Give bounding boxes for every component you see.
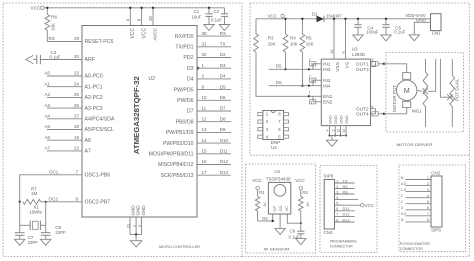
svg-text:OC2: OC2 [49, 196, 59, 201]
svg-text:PW/PD5: PW/PD5 [174, 87, 194, 93]
svg-text:2: 2 [401, 200, 403, 204]
U3 pins 7/15 IN2 IN4 [309, 75, 322, 86]
svg-text:D9: D9 [220, 127, 226, 132]
wire CN1 GND [414, 18, 430, 35]
svg-text:5: 5 [138, 225, 142, 227]
svg-text:A3: A3 [45, 103, 51, 108]
wire net D5 to IN1/IN3 [269, 68, 309, 70]
svg-text:TX/PD1: TX/PD1 [175, 45, 193, 51]
svg-text:12: 12 [202, 116, 208, 121]
svg-text:PB0/D8: PB0/D8 [176, 119, 194, 125]
svg-text:TX: TX [343, 179, 348, 183]
svg-text:3: 3 [427, 188, 429, 192]
svg-text:MICRO-CONTROLLER: MICRO-CONTROLLER [159, 244, 200, 249]
svg-text:12: 12 [337, 129, 341, 133]
svg-text:1: 1 [427, 176, 429, 180]
svg-text:IR SENSOR: IR SENSOR [264, 246, 290, 251]
svg-text:GND: GND [416, 18, 427, 23]
wire CN2 pin 4 net 1 [401, 194, 431, 198]
svg-text:16: 16 [330, 50, 334, 54]
svg-text:3: 3 [132, 225, 136, 227]
svg-text:VCC: VCC [141, 28, 147, 39]
U2 VCC pin 4 wire [125, 7, 136, 39]
svg-text:4-0: 4-0 [401, 182, 407, 186]
wire net D5 pin 9 [174, 84, 231, 93]
ground (C1) [204, 25, 214, 31]
wire net A3 pin 26 [47, 107, 82, 109]
wire pot1 wiper [428, 59, 435, 92]
ground (C2) [219, 25, 229, 31]
svg-text:PROGRAMMING: PROGRAMMING [330, 240, 357, 244]
svg-text:13: 13 [342, 129, 346, 133]
svg-text:17: 17 [202, 170, 208, 175]
wire EN pull line [256, 52, 309, 96]
svg-text:M: M [404, 86, 410, 95]
svg-text:U1: U1 [275, 169, 281, 174]
svg-text:EN2: EN2 [323, 100, 333, 106]
svg-text:9: 9 [310, 100, 312, 104]
svg-text:A7: A7 [85, 149, 91, 155]
svg-text:28: 28 [74, 124, 80, 129]
svg-text:D7: D7 [187, 109, 194, 115]
wire net D6 pin 10 [177, 95, 231, 104]
svg-text:R5: R5 [306, 36, 312, 41]
capacitor C1 10uF [192, 7, 213, 25]
svg-text:OUT4: OUT4 [356, 112, 369, 118]
section label PROGRAMMING CONNECTOR [330, 240, 357, 249]
junction dot pin 1 (D3 row) [196, 67, 199, 70]
wire U1 GND pin [279, 214, 281, 228]
svg-text:U3: U3 [352, 47, 358, 52]
svg-text:7: 7 [336, 213, 338, 217]
svg-text:A1-PC1: A1-PC1 [85, 84, 103, 90]
svg-text:A7: A7 [45, 146, 51, 151]
resistor R5 10K [300, 18, 314, 87]
svg-text:C1: C1 [194, 9, 200, 14]
svg-text:3: 3 [401, 206, 403, 210]
U2 AVCC pin 18 wire [148, 7, 159, 41]
ground (CN1) [409, 35, 419, 41]
svg-text:D12: D12 [343, 213, 350, 217]
ground (U2) [130, 241, 141, 247]
section box: IR SENSOR [246, 164, 316, 253]
svg-text:D7: D7 [220, 106, 226, 111]
svg-text:1K: 1K [305, 202, 310, 207]
svg-text:D6: D6 [220, 95, 226, 100]
U3 pins 6/14 OUT2 OUT4 [371, 105, 386, 116]
svg-text:R4: R4 [290, 36, 296, 41]
svg-text:VS: VS [345, 62, 351, 68]
wire net RS to RESET pin 29 [47, 41, 82, 43]
wire CN3 pin 6 net D11 [335, 207, 355, 211]
svg-text:SIP8: SIP8 [324, 173, 334, 178]
svg-text:SCK/PB5/D13: SCK/PB5/D13 [161, 173, 194, 179]
wire CN3 pin 4 [335, 196, 359, 200]
svg-text:ARF: ARF [85, 57, 95, 63]
svg-text:VCC: VCC [252, 178, 262, 183]
svg-text:7: 7 [427, 212, 429, 216]
svg-text:1: 1 [401, 194, 403, 198]
svg-text:CN3: CN3 [324, 230, 333, 235]
svg-text:20: 20 [74, 54, 80, 59]
svg-text:10K: 10K [306, 42, 314, 47]
svg-text:22: 22 [74, 146, 80, 151]
svg-text:D4: D4 [220, 74, 226, 79]
svg-text:1: 1 [309, 91, 311, 95]
wire U1 VC pin to R2 [287, 214, 301, 223]
potentiometer POT DUAL [450, 59, 460, 127]
svg-text:IN1: IN1 [323, 62, 331, 68]
svg-text:15: 15 [202, 149, 208, 154]
wire net D3 pin 1 [187, 63, 231, 72]
wire motor to pot wiper (mech link) [417, 90, 422, 91]
svg-text:D1: D1 [312, 11, 318, 16]
svg-text:1K: 1K [262, 202, 267, 207]
wire net A6 pin 19 [47, 139, 82, 141]
svg-text:1-0: 1-0 [401, 188, 407, 192]
svg-text:4: 4 [326, 129, 330, 131]
svg-text:10K: 10K [290, 42, 298, 47]
resistor R4 10K [283, 18, 298, 71]
svg-text:26: 26 [74, 103, 80, 108]
svg-text:RX: RX [220, 31, 226, 36]
svg-text:IN4: IN4 [323, 83, 331, 89]
svg-text:AVCC: AVCC [153, 27, 159, 41]
svg-text:10K: 10K [51, 23, 56, 31]
svg-text:100uF: 100uF [366, 30, 379, 35]
wire net D10 pin 14 [163, 138, 231, 147]
svg-text:8: 8 [427, 218, 429, 222]
U3 pins 2/10 IN1 IN3 [309, 58, 322, 69]
wire CN2 pin 1 net N [401, 176, 431, 180]
svg-text:PW/D6: PW/D6 [177, 98, 194, 104]
svg-text:A4/PC4/SDA: A4/PC4/SDA [85, 117, 116, 123]
capacitor C2 0.1uF [211, 8, 228, 25]
svg-text:3: 3 [371, 58, 373, 62]
svg-text:5: 5 [336, 202, 338, 206]
svg-text:VCC: VCC [130, 28, 136, 39]
wire CN2 pin 3 net 1-0 [401, 188, 431, 192]
wire VCC rail to diode [256, 18, 317, 20]
svg-text:VCC: VCC [365, 203, 375, 208]
svg-text:L293D: L293D [352, 52, 365, 57]
svg-text:R1: R1 [259, 190, 265, 195]
IC U3 L293D body [321, 59, 370, 126]
wire CN2 pin 7 net 3-0 [401, 212, 431, 216]
svg-text:19: 19 [74, 135, 80, 140]
wire CN2 pin 6 net 3 [401, 206, 431, 210]
resistor R7 1M [23, 199, 41, 204]
wire net OC2 pin 8 (OSC2) [41, 201, 82, 203]
svg-text:IN3: IN3 [323, 67, 331, 73]
section box: motor+pot assembly [386, 53, 464, 133]
wire net RX pin 30 [175, 31, 231, 40]
svg-text:ATMEGA328TQPF-32: ATMEGA328TQPF-32 [134, 76, 141, 154]
wire VCC rail (top) [44, 7, 224, 9]
connector CN1 supply [405, 13, 441, 35]
svg-text:D11: D11 [220, 149, 228, 154]
wire net D13 pin 17 [161, 170, 231, 179]
wire net D12 pin 16 [158, 159, 231, 168]
svg-text:D13: D13 [343, 218, 350, 222]
svg-text:D3: D3 [187, 66, 194, 72]
ground (U1) [275, 228, 285, 234]
svg-text:4: 4 [427, 194, 429, 198]
svg-text:TSOP34438: TSOP34438 [266, 176, 291, 181]
svg-text:2: 2 [427, 182, 429, 186]
svg-text:16Mhz: 16Mhz [29, 209, 42, 214]
svg-text:10: 10 [310, 62, 314, 66]
svg-text:D11: D11 [343, 207, 350, 211]
svg-text:VCC: VCC [31, 6, 41, 11]
sheet frame (bottom/right) [242, 155, 469, 256]
arrow (AREF terminator) [26, 55, 33, 63]
svg-text:GND: GND [327, 115, 332, 124]
wire net D8 pin 12 [176, 116, 231, 125]
svg-text:D12: D12 [220, 159, 229, 164]
wire OUT2 to motor [384, 113, 407, 115]
svg-text:GND: GND [338, 115, 343, 124]
wire net D7 pin 11 [187, 106, 231, 115]
svg-text:13: 13 [202, 127, 208, 132]
svg-text:25: 25 [74, 92, 80, 97]
op IC U2 ATMEGA328TQPF-32 body [82, 26, 197, 218]
svg-text:2: 2 [336, 185, 338, 189]
svg-text:D6: D6 [276, 80, 282, 85]
svg-text:D10: D10 [220, 138, 229, 143]
svg-text:6: 6 [427, 206, 429, 210]
connector CN3 SIP8 [324, 173, 335, 234]
svg-text:POT DUAL: POT DUAL [455, 78, 460, 101]
svg-text:OC1: OC1 [49, 170, 59, 175]
potentiometer (motor pot) [423, 59, 428, 127]
svg-text:VSS: VSS [335, 62, 341, 72]
svg-text:U4: U4 [271, 145, 277, 150]
svg-text:R6: R6 [51, 15, 57, 20]
wire OUT1 to motor [384, 64, 407, 73]
svg-text:D3: D3 [220, 63, 226, 68]
svg-text:6: 6 [336, 207, 338, 211]
wire net D2 (IR out) [258, 214, 274, 222]
capacitor C7 22PF [15, 232, 25, 234]
U2 left pin names [85, 39, 116, 205]
svg-text:1: 1 [336, 179, 338, 183]
resistor R1 1K [255, 190, 267, 221]
wire net D2 pin 32 [183, 52, 231, 61]
ground (C7) [15, 239, 25, 245]
svg-text:GD: GD [278, 205, 283, 211]
svg-text:D5: D5 [220, 84, 226, 89]
section box: PROGRAMMING CONNECTOR [320, 166, 377, 253]
power VCC (CN3 pin 5) [361, 204, 364, 207]
svg-text:6: 6 [371, 105, 373, 109]
svg-text:A2-PC2: A2-PC2 [85, 95, 103, 101]
svg-text:POTENTIOMETER: POTENTIOMETER [400, 242, 430, 246]
svg-text:VCC: VCC [268, 13, 277, 18]
wire net A7 pin 22 [47, 150, 82, 152]
svg-text:IN2: IN2 [323, 78, 331, 84]
svg-text:D13: D13 [220, 170, 229, 175]
svg-text:22PF: 22PF [28, 240, 39, 245]
svg-text:GND: GND [136, 205, 141, 216]
section box: MOTOR DRIVER [250, 3, 469, 155]
svg-text:MG1: MG1 [412, 108, 422, 113]
svg-text:30: 30 [202, 31, 208, 36]
svg-text:D4: D4 [187, 77, 194, 83]
section box: MICRO-CONTROLLER [3, 3, 242, 257]
IC U4 DIP socket (DNP) [258, 111, 289, 151]
svg-text:0.1uF: 0.1uF [50, 54, 61, 59]
svg-text:A1: A1 [45, 81, 51, 86]
svg-text:A0: A0 [45, 71, 51, 76]
motor MG1 [397, 73, 423, 114]
wire CN3 pin 1 net TX [335, 179, 355, 183]
svg-text:PW/PB2/D10: PW/PB2/D10 [163, 141, 194, 147]
svg-text:0.1uF: 0.1uF [211, 18, 222, 23]
U3 pin names [323, 62, 369, 118]
svg-text:3-0: 3-0 [401, 212, 407, 216]
ground (U3) [326, 140, 337, 146]
IC U1 TSOP34438 [266, 169, 291, 214]
svg-text:D5: D5 [276, 63, 282, 68]
svg-text:C2: C2 [214, 9, 220, 14]
svg-text:OSC1-PB6: OSC1-PB6 [85, 173, 111, 179]
svg-text:A0-PC0: A0-PC0 [85, 74, 103, 80]
svg-text:10: 10 [202, 95, 208, 100]
svg-text:23: 23 [74, 71, 80, 76]
wire net A0 pin 23 [47, 75, 82, 77]
U2 GND pins 21 3 5 [126, 205, 146, 241]
svg-text:8: 8 [336, 218, 338, 222]
wire net D4 pin 2 [187, 74, 231, 83]
svg-text:10K: 10K [268, 42, 276, 47]
wire net A4 pin 27 [47, 118, 82, 120]
resistor R2 1K [299, 190, 311, 223]
svg-text:31: 31 [202, 42, 208, 47]
svg-text:27: 27 [74, 114, 80, 119]
U3 VS pin 8 wire [342, 18, 347, 60]
resistor R3 10K [254, 19, 276, 52]
wire net OC1 pin 7 (OSC1) [20, 175, 82, 202]
svg-text:22PF: 22PF [55, 230, 66, 235]
U3 pins 1/9 EN1 EN2 [309, 91, 322, 105]
svg-text:CONNECTOR: CONNECTOR [330, 245, 353, 249]
svg-text:SIP8: SIP8 [431, 228, 441, 233]
svg-text:U2: U2 [149, 76, 156, 82]
svg-text:A5: A5 [45, 124, 51, 129]
svg-text:16: 16 [202, 159, 208, 164]
svg-text:21: 21 [126, 224, 130, 228]
wire net A1 pin 24 [47, 86, 82, 88]
svg-text:A6: A6 [45, 135, 51, 140]
svg-text:5: 5 [331, 129, 335, 131]
svg-text:OUT1: OUT1 [356, 62, 369, 68]
wire net D11 pin 15 [149, 149, 231, 158]
capacitor C5 0.1uF [382, 18, 405, 35]
svg-text:RS: RS [49, 36, 55, 41]
svg-text:TX: TX [220, 42, 226, 47]
U2 VCC pin 6 wire [137, 7, 148, 39]
svg-text:A4: A4 [45, 114, 51, 119]
capacitor C9 22PF [41, 232, 51, 234]
svg-text:RESET-PC6: RESET-PC6 [85, 39, 114, 45]
svg-text:A3-PC3: A3-PC3 [85, 106, 103, 112]
svg-text:VC: VC [284, 206, 289, 212]
svg-text:A5/PC5/SCL: A5/PC5/SCL [85, 127, 115, 133]
svg-text:32: 32 [202, 52, 208, 57]
svg-text:18: 18 [148, 16, 153, 22]
svg-text:OUT2: OUT2 [356, 106, 369, 112]
ground (C4) [353, 35, 363, 41]
svg-text:PD2: PD2 [183, 55, 193, 61]
wire CN3 pin 7 net D12 [335, 213, 355, 217]
svg-text:EN1: EN1 [323, 94, 333, 100]
capacitor C6 0.1uF [289, 223, 305, 239]
resistor R6 10K [46, 8, 48, 15]
svg-text:8: 8 [342, 52, 346, 54]
wire net A2 pin 25 [47, 96, 82, 98]
wire CN3 pin 5 [335, 202, 361, 206]
wire net TX pin 31 [175, 42, 231, 51]
svg-text:10uF: 10uF [192, 15, 202, 20]
ground (C9) [41, 239, 51, 245]
wire CN2 pin 5 net 2 [401, 200, 431, 204]
svg-text:24: 24 [74, 81, 80, 86]
svg-text:MOSI/PW/PB3/D11: MOSI/PW/PB3/D11 [149, 152, 194, 158]
svg-text:D2: D2 [262, 216, 268, 221]
wire CN2 pin 2 net 4-0 [401, 182, 431, 186]
section box: POTENTIOMETER CONNECTOR [399, 165, 466, 252]
section label POTENTIOMETER CONNECTOR [400, 242, 430, 251]
svg-text:11: 11 [202, 106, 207, 111]
svg-text:CONNECTOR: CONNECTOR [400, 247, 423, 251]
svg-text:14: 14 [202, 138, 208, 143]
capacitor C4 100uF [354, 18, 378, 35]
svg-text:D8: D8 [220, 116, 226, 121]
U3 GND pins 4 5 12 13 [326, 115, 349, 140]
wire VDD rail (after diode) [324, 18, 431, 20]
ground (C6) [296, 239, 306, 245]
svg-text:3: 3 [336, 190, 338, 194]
connector CN2 SIP8 [431, 171, 442, 233]
svg-text:A6: A6 [85, 138, 91, 144]
svg-text:GND: GND [344, 115, 349, 124]
wire CN3 pin 8 net D13 [335, 218, 355, 222]
U3 VSS pin 16 wire [330, 18, 335, 60]
wire pot2 wiper [440, 59, 452, 97]
svg-text:CN2: CN2 [431, 171, 440, 176]
svg-text:CN1: CN1 [432, 30, 441, 35]
svg-text:VCC: VCC [295, 178, 305, 183]
svg-text:GND: GND [141, 205, 146, 216]
svg-text:5: 5 [427, 200, 429, 204]
svg-text:RX: RX [343, 185, 349, 189]
crystal X1 16Mhz [19, 202, 21, 233]
svg-text:A2: A2 [45, 92, 51, 97]
svg-text:C6: C6 [290, 229, 296, 234]
svg-text:D2: D2 [220, 52, 226, 57]
svg-text:R3: R3 [268, 36, 274, 41]
svg-text:0.1uF: 0.1uF [394, 30, 405, 35]
svg-text:MISO/PB4/D12: MISO/PB4/D12 [158, 162, 194, 168]
svg-text:N: N [401, 218, 404, 222]
svg-text:R2: R2 [302, 190, 308, 195]
svg-text:OUT3: OUT3 [356, 67, 369, 73]
svg-text:GND: GND [333, 115, 338, 124]
wire net A5 pin 28 [47, 129, 82, 131]
wire CN3 pin 3 net RS [335, 190, 355, 194]
wire net D6 to IN2/IN4 [269, 85, 309, 87]
